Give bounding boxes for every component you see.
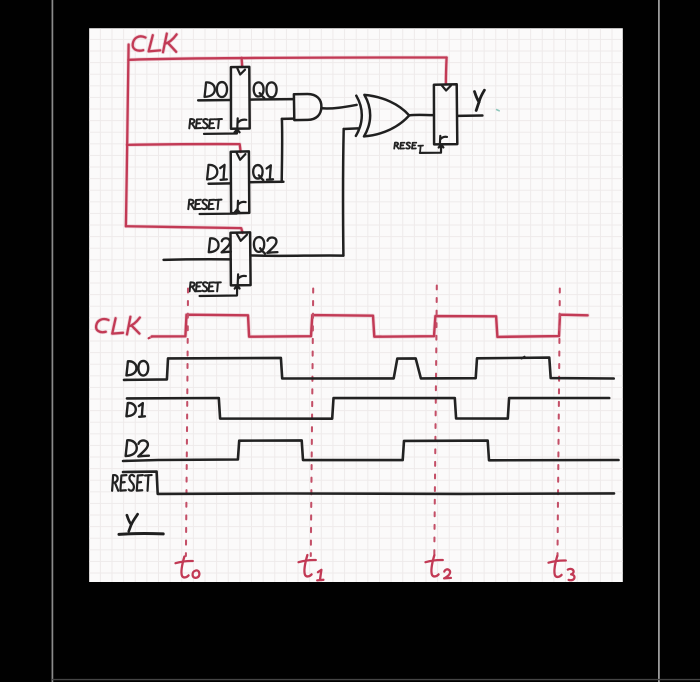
wire XOR lower input stub xyxy=(344,127,358,130)
time label t2 xyxy=(426,555,451,578)
label RESET (timing) xyxy=(112,475,118,491)
FF2 clock wedge xyxy=(237,234,247,241)
wire Q1 output xyxy=(249,181,283,184)
label Y (schematic output) xyxy=(475,90,485,110)
wire D1 input xyxy=(209,182,231,185)
wire CLK mid horizontal to FF1 xyxy=(127,144,241,152)
D flip-flop FF3 body xyxy=(434,84,457,144)
D flip-flop FF2 body xyxy=(231,232,251,285)
wire Q2 output xyxy=(251,254,344,257)
D flip-flop FF0 body xyxy=(231,67,250,129)
label Q0 xyxy=(254,82,265,98)
wire Q0 to AND input xyxy=(250,98,294,101)
wire CLK drop to FF3 clock xyxy=(445,58,448,84)
FF1 clock wedge xyxy=(237,153,246,160)
FF0 clock wedge xyxy=(237,68,245,74)
label CLK (schematic, handwritten) xyxy=(133,34,177,53)
waveform CLK halo xyxy=(152,315,588,337)
wire CLK top horizontal to output FF xyxy=(128,58,446,60)
label Y underline xyxy=(119,532,163,536)
wire XOR output xyxy=(409,114,434,117)
stray teal mark xyxy=(497,110,500,111)
label RESET (FF0) xyxy=(189,119,195,128)
label D0 xyxy=(205,82,215,97)
time marker dashed line t3 xyxy=(558,289,560,557)
FF3 reset pin symbol xyxy=(440,136,447,144)
FF3 clock wedge xyxy=(442,85,451,90)
wire Q1 riser to AND xyxy=(280,119,283,182)
time marker dashed line t2 xyxy=(434,286,437,557)
wire RESET to FF2 xyxy=(200,286,240,296)
wire Y output xyxy=(457,114,482,117)
waveform D0 xyxy=(124,358,614,380)
FF0 reset pin symbol xyxy=(237,118,246,128)
wire AND lower input stub xyxy=(282,117,294,120)
label D1 (timing) xyxy=(126,403,135,416)
XOR gate input arc xyxy=(356,96,362,136)
paper grid xyxy=(89,28,623,582)
label Q2 xyxy=(254,237,265,253)
app frame right gutter line xyxy=(658,0,660,682)
FF2 reset pin symbol xyxy=(238,274,246,284)
app frame bottom divider xyxy=(52,679,700,681)
wire RESET to FF0 xyxy=(204,129,240,134)
wire RESET to FF3 xyxy=(420,145,444,153)
label D2 xyxy=(209,238,219,252)
label RESET (FF2) xyxy=(190,282,196,291)
red ink halo underlay xyxy=(126,34,447,233)
wire CLK bus vertical xyxy=(126,45,129,227)
wire AND output to XOR xyxy=(321,105,356,109)
label D1 xyxy=(207,165,217,180)
waveform CLK (red) xyxy=(152,315,588,337)
waveform CLK lead-in xyxy=(149,337,153,339)
time label t0 xyxy=(176,557,200,578)
time marker dashed line t0 xyxy=(186,289,188,557)
waveform D0 pen blip xyxy=(522,357,525,359)
wire D0 input xyxy=(198,99,231,102)
waveform RESET xyxy=(123,472,614,494)
time label t3 xyxy=(549,556,575,581)
label Y (timing) xyxy=(127,514,138,531)
FF1 reset pin symbol xyxy=(238,201,246,210)
waveform D2 xyxy=(123,440,619,461)
time label t1 xyxy=(299,555,324,580)
wire D2 input xyxy=(164,258,231,261)
wire Q2 riser to XOR xyxy=(342,129,345,256)
label D0 (timing) xyxy=(126,361,136,375)
waveform D1 xyxy=(127,398,609,419)
label RESET (FF3 output) xyxy=(394,143,398,149)
CLK timing label halo xyxy=(96,317,140,335)
note paper xyxy=(89,28,623,582)
wire RESET to FF1 xyxy=(200,209,240,214)
label RESET (FF1) xyxy=(188,200,194,210)
wire CLK drop to FF0 clock xyxy=(240,58,243,67)
AND gate xyxy=(294,94,322,120)
app frame left gutter line xyxy=(51,0,53,682)
XOR gate body xyxy=(364,95,409,136)
label Q1 xyxy=(253,165,263,180)
time marker dashed line t1 xyxy=(311,289,313,557)
label D2 (timing) xyxy=(126,440,137,456)
D flip-flop FF1 body xyxy=(231,151,250,213)
wire CLK bottom horizontal to FF2 xyxy=(126,226,243,233)
